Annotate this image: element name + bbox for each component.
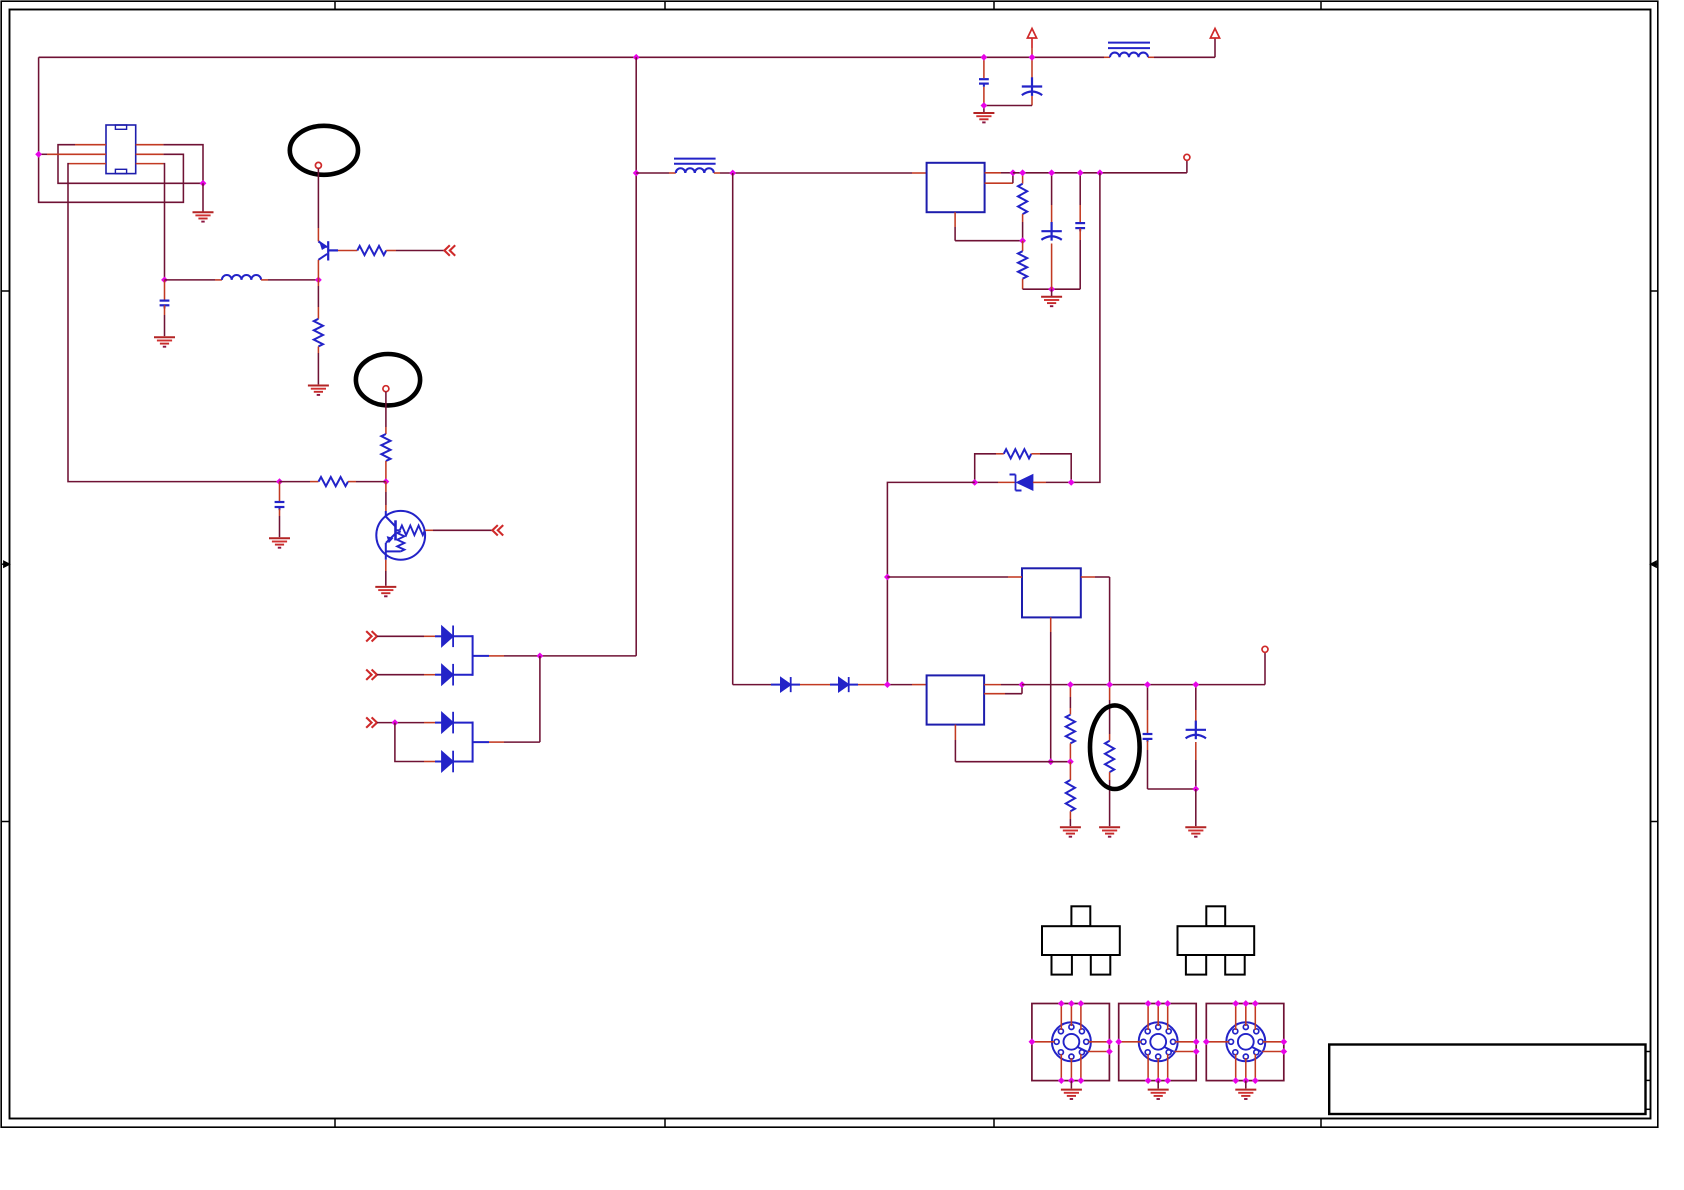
port chevron output 2 [366,670,371,680]
wire OR node riser to top rail [635,57,637,656]
wire X1 pin L1 to ground net [58,145,203,184]
wire C4 bottom to ground node [984,105,1032,107]
wire D3 cathode to rail [453,722,473,724]
wire zener anode stub [975,481,1016,483]
pin CON2 left [1119,1041,1142,1043]
connector CON2 [1119,1004,1197,1081]
node rail-R10 junction [1106,681,1113,688]
port chevron output 3 [366,717,371,727]
power arrow VCC right [1210,29,1219,39]
port chevron input 1 [444,245,449,255]
resistor R10 [1105,685,1114,827]
diode D6 [781,678,791,692]
wire port3 branch down [395,723,424,762]
pins CON1 right [1088,1042,1110,1052]
node rail-R8 junction [1067,681,1074,688]
border centering arrow left [1,561,10,567]
wire left drop from rail to X1 pin net [38,57,40,154]
wire base net to inductor L1 [165,279,222,281]
regulator U2 [927,163,985,212]
diode D7 [839,678,849,692]
wire D1 cathode to rail [453,635,473,637]
pin U4 adj bottom [955,725,1050,762]
pin X1-R1 [136,144,164,146]
wire top rail to filter L3 [1032,56,1110,58]
node Q1 emitter-resistor junction [315,277,322,284]
wire rail to L2 [636,172,676,174]
wire TP3 riser [1186,160,1188,173]
wire TP2 down to R3 [385,392,387,434]
diode D5 zener [1010,475,1033,491]
wire R6 ground rail [1023,288,1081,290]
ground for C3 C4 [973,113,994,122]
resistor R7 parallel branch [975,449,1071,482]
node OR junction [537,653,544,660]
regulator U4 [927,675,985,724]
wire port1 to D1 [377,635,442,637]
nodes CON2 [1115,1000,1199,1084]
testpoint circle TP-R10 ellipse [1090,705,1140,789]
pin CON1 left [1032,1041,1055,1043]
ground for X1 [193,212,214,221]
wire port3 to D3 [377,722,442,724]
wire D7 to U4 [849,684,927,686]
capacitor C5 polarized [1041,173,1061,289]
wire OR rail lower [472,722,474,763]
pin X1-R3 [136,163,164,165]
wire R1 to port [396,250,444,252]
capacitor C2 [275,482,285,538]
package outline PKG2 [1178,906,1255,974]
wire TP1 to Q1 collector [317,168,319,241]
wire port2 to D2 [377,674,442,676]
title block [1329,1045,1645,1115]
border zone tick marks top [335,1,1321,9]
wire node down to Q2 [385,482,387,511]
pin U4 output [984,684,1022,686]
ground for C2 [269,538,290,547]
wire L3 to power arrow [1148,38,1215,57]
wire rectifier row [733,684,781,686]
wire zener cathode stub [1033,481,1071,483]
capacitor C7 [1143,685,1153,789]
resistor R8 [1066,685,1075,762]
resistor R4 [280,477,386,486]
ground for U2 divider [1041,297,1062,306]
capacitor C4 polarized [1022,57,1042,105]
node X1-L2 junction [35,151,42,158]
node zener right junction [1068,479,1075,486]
resistor R2 [314,319,323,347]
resistor R1 [338,246,396,255]
transistor Q2 digital [376,511,425,560]
pin X1-L3 [69,163,106,165]
wire top rail middle segment [636,56,1032,58]
ground for CON2 [1148,1090,1169,1099]
node rail-C5 junction [1048,169,1055,176]
wire Q2 emitter to ground [385,560,387,586]
node port3 junction [392,719,399,726]
node rail-L2 junction [633,170,640,177]
resistor R9 [1066,762,1075,827]
node L2-rectifier junction [729,170,736,177]
testpoint circle TP2 ellipse [356,354,420,405]
pins CON1 top [1061,1004,1081,1031]
nodes CON3 [1203,1000,1287,1084]
node U3 input junction [884,574,891,581]
testpoint circle TP1 ellipse [290,126,358,175]
node rail-C4 junction [1029,54,1036,61]
pin CON3 left [1206,1041,1229,1043]
pin U3 ground [1050,617,1052,761]
pin X1-R2 [136,153,164,155]
wire OR rail upper [472,635,474,676]
pins CON3 right [1262,1042,1284,1052]
connector CON3 [1206,1004,1284,1081]
node U2 output junction [1010,169,1017,176]
wire rail to X1 pin L2 [39,153,47,155]
border zone tick marks right [1651,291,1659,822]
wire U3gnd to R8 node [1051,761,1071,763]
wire X1 pin R3 down to base net [163,164,164,280]
ground for CON3 [1235,1090,1256,1099]
wire CON3 shield to ground [1245,1081,1247,1089]
wire zener riser [1071,173,1100,483]
inductor L3 ferrite bead [1108,43,1150,58]
node X1 ground net junction [200,180,207,187]
pin X1-L1 [75,144,106,146]
port chevron input 2 [492,525,497,535]
wire X1 pin L3 long net down-left [68,164,280,482]
wire X1 pin R1 to ground net [163,145,203,184]
connector CON1 [1032,1004,1110,1081]
wire C7 to C8 node [1148,788,1196,790]
node rail-OR junction [633,54,640,61]
node base net left junction [161,277,168,284]
ground for R9 [1060,827,1081,836]
node rectifier-U4 junction [884,681,891,688]
nodes CON1 [1029,1000,1113,1084]
node zener left junction [971,479,978,486]
pins CON3 bottom [1236,1054,1256,1081]
pins CON2 top [1148,1004,1168,1031]
wire OR output lower [473,656,540,742]
pin U3 output [1081,577,1110,685]
capacitor C6 [1075,173,1085,289]
wire D2 cathode to rail [453,674,473,676]
wire rectifier riser [732,173,734,685]
node divider junction [383,478,390,485]
testpoint TP2 [383,386,389,392]
testpoint TP3 [1184,154,1190,160]
wire ground net stub down [202,183,204,211]
package outline PKG1 [1042,906,1120,974]
wire U2 output rail [1013,172,1187,174]
ground for Q2 [375,587,396,596]
wire U4 output rail [1022,684,1265,686]
wire L2 to U2 input [714,172,927,174]
testpoint TP4 [1262,646,1268,652]
pin U2 sense [985,173,1013,183]
wire X1 loop net L2-R2 [39,154,184,202]
node ground rail junction [1048,286,1055,293]
wire R2 to ground [317,347,319,385]
ground for R10 [1099,827,1120,836]
power arrow VCC mid [1027,29,1036,58]
border centering arrow right [1650,561,1658,567]
border zone tick marks left [1,291,9,822]
node C3-C4 junction [981,102,988,109]
node C8 junction [1192,786,1199,793]
wire D6 to D7 [791,684,839,686]
wire C8 to ground [1195,789,1197,826]
pins CON2 bottom [1148,1054,1168,1081]
node U4 output junction [1019,681,1026,688]
testpoint TP1 [315,162,321,168]
ground for CON1 [1061,1090,1082,1099]
transistor Q1 [318,241,338,260]
wire OR output upper [473,655,637,657]
capacitor C8 polarized [1186,685,1206,789]
pin X1-L2 [47,153,106,155]
capacitor C1 [160,280,170,336]
wire D4 cathode to rail [453,761,473,763]
port chevron output 1 [366,631,371,641]
border zone tick marks bottom [335,1119,1321,1128]
node rail-C7 junction [1144,681,1151,688]
pins CON1 bottom [1061,1054,1081,1081]
wire TP4 riser [1264,652,1266,684]
node rail-C3 junction [981,54,988,61]
inductor L2 ferrite bead [674,159,716,173]
pins CON3 top [1236,1004,1256,1031]
diode D3 [442,713,453,733]
node rail-R5 junction [1019,169,1026,176]
resistor R3 [381,434,390,461]
pins CON2 right [1175,1042,1197,1052]
ground for R2 [308,386,329,395]
diode D1 [442,626,453,646]
inductor L1 [222,275,261,280]
pin U4 sense [984,685,1022,694]
title block side ticks [1646,1052,1651,1110]
wire C3 ground node [983,106,985,113]
wire Q2 base to port [425,529,492,531]
node rail-riser junction [1097,169,1104,176]
node rail-C8 junction [1192,681,1199,688]
resistor R5 [1018,173,1027,241]
wire CON1 shield to ground [1070,1081,1072,1089]
resistor R6 [1018,241,1027,290]
regulator U3 [1022,568,1081,617]
wire branch stub to D4 [424,761,442,763]
wire R3 to node [385,461,387,482]
wire top supply rail [39,56,637,58]
ground for C8 [1185,827,1206,836]
node rail-C6 junction [1077,169,1084,176]
wire L1 to Q1 emitter node [261,279,318,281]
diode D2 [442,665,453,685]
wire zener net to regulators [887,482,974,684]
diode D4 [442,752,453,772]
wire CON2 shield to ground [1157,1081,1159,1089]
crystal filter X1 [106,125,136,174]
pin U2 adj bottom [955,212,1023,241]
wire Q1 emitter down [317,260,319,319]
ground for C1 [154,337,175,346]
node R8-R9 junction [1067,758,1074,765]
node R5-R6 junction [1019,237,1026,244]
capacitor C3 [979,57,989,105]
node C2 junction [276,478,283,485]
pin U2 output [985,172,1013,174]
pin U3 input [887,576,1022,578]
node U3 ground junction [1047,758,1054,765]
